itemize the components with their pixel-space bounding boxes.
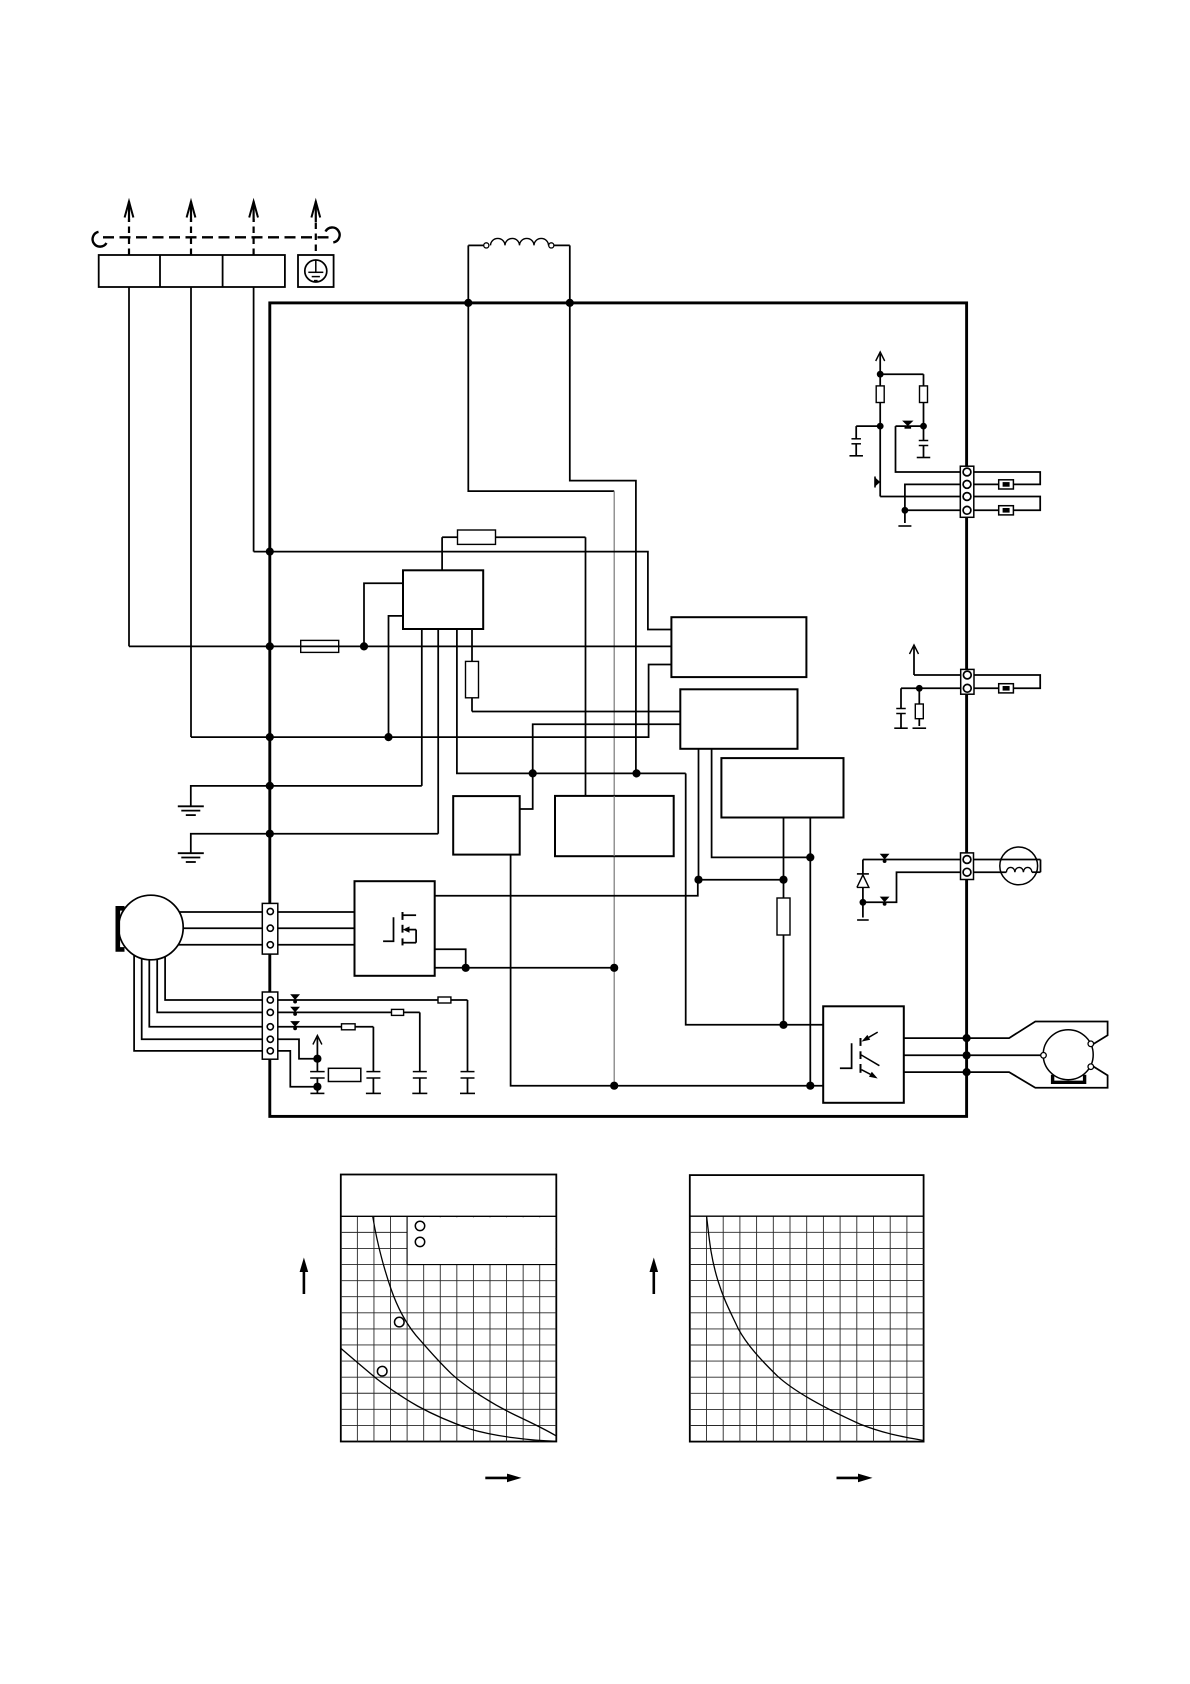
- pin mark p3: [290, 1021, 300, 1027]
- resistor R1: [876, 386, 884, 403]
- wire M1 signal 3: [149, 960, 262, 1027]
- wire U1 pin-left1: [364, 583, 403, 646]
- pin mark fan2: [880, 897, 890, 903]
- wire M1 signal 4: [142, 959, 263, 1040]
- CN-A pin2: [963, 481, 971, 489]
- node xlink1: [694, 876, 702, 884]
- junction node top-right: [566, 299, 574, 307]
- wire M1 w: [178, 944, 262, 946]
- node fan gnd: [860, 899, 867, 906]
- fuse F2: [458, 530, 496, 544]
- node p5: [313, 1083, 321, 1091]
- gnd bar R3: [913, 727, 927, 729]
- Vcc arrow sensors: [879, 354, 881, 374]
- wire row N: [270, 665, 672, 738]
- capacitor C5: [851, 438, 861, 440]
- connector CN-A: [960, 466, 974, 517]
- graph1 frame: [341, 1175, 557, 1442]
- wire R1 top: [879, 374, 881, 386]
- wire terminal3: [253, 287, 255, 552]
- thermistor loop 3: [974, 675, 1040, 688]
- node bus2: [632, 769, 640, 777]
- wire Q1 out1: [435, 880, 698, 896]
- wire U1 pin b3: [457, 629, 686, 773]
- power module Q1: [355, 881, 435, 976]
- block D: [555, 796, 674, 856]
- wire R2 bottom: [923, 403, 925, 427]
- wire CN-B pin2 left: [901, 687, 961, 689]
- wire to ground 1: [191, 786, 270, 806]
- resistor R5: [777, 898, 790, 935]
- thermistor TH3: [999, 684, 1014, 693]
- resistor R2: [920, 386, 928, 403]
- node row-L branch: [360, 642, 368, 650]
- wire CN-D to Q1 v: [278, 927, 355, 929]
- CN-C pin1: [963, 856, 971, 864]
- node gray-bus end: [610, 1082, 618, 1090]
- capacitor C2: [413, 1071, 427, 1073]
- wire M1 signal 2: [157, 959, 262, 1012]
- graph1 frame line: [341, 1215, 557, 1217]
- resistor R3: [915, 704, 923, 719]
- IC U1: [403, 570, 483, 629]
- fan motor winding: [974, 859, 1041, 861]
- wire terminal1 to L row: [128, 287, 130, 646]
- fuse F1: [301, 640, 339, 652]
- graph1 x-axis arrow: [485, 1477, 511, 1480]
- wire U1 pin b2: [437, 629, 439, 834]
- wire R3 gnd: [918, 719, 920, 726]
- wire M1 signal 5: [134, 955, 262, 1051]
- thermistor TH1: [999, 480, 1014, 489]
- node row-A on edge: [266, 548, 274, 556]
- resistor R4: [466, 661, 479, 697]
- CN-E pin5: [267, 1048, 273, 1054]
- wire TH1 to pin2: [974, 483, 999, 485]
- wire M1 v: [183, 927, 262, 929]
- graph1 marker 2: [377, 1366, 387, 1376]
- wire fan pin1 left: [863, 859, 961, 861]
- field-wiring arrow 4: [315, 219, 317, 262]
- graph2 y-axis arrow: [652, 1268, 655, 1294]
- block E: [453, 796, 520, 855]
- node row-L on edge: [266, 642, 274, 650]
- wire zener to pin1: [896, 426, 961, 472]
- node comp3: [963, 1068, 971, 1076]
- wire CN-E p1: [278, 999, 438, 1001]
- CN-E pin1: [267, 997, 273, 1003]
- CN-A pin4: [963, 506, 971, 514]
- wire fuse F2 to box D: [496, 536, 586, 538]
- CN-B pin1: [963, 671, 971, 679]
- compressor shell: [1043, 1030, 1093, 1080]
- wire Q2 out2: [904, 1054, 967, 1056]
- CN-D pin1: [267, 908, 273, 914]
- wire block B pin-b1: [698, 749, 700, 880]
- wire CN-E p4: [278, 1039, 318, 1058]
- junction node top-left: [464, 299, 472, 307]
- wire from L1 right node down: [570, 303, 636, 774]
- node driver-in: [779, 1021, 787, 1029]
- wire block E bottom to driver: [511, 855, 824, 1086]
- motor M1: [119, 895, 184, 960]
- Vcc arrow: [316, 1038, 318, 1059]
- wire to pin3: [880, 496, 960, 498]
- CN-B pin2: [963, 684, 971, 692]
- wire U1 pin-left2: [389, 616, 404, 737]
- wire bus1 to box E: [520, 773, 533, 809]
- wire box B pin2: [533, 724, 681, 773]
- wire Q1 out3: [435, 967, 615, 969]
- wire TH2 to pin4: [974, 509, 999, 511]
- pin mark fan1: [880, 854, 890, 860]
- graph2 x-axis arrow: [837, 1477, 863, 1480]
- pin mark p2: [290, 1007, 300, 1013]
- compressor wire mid: [967, 1054, 1041, 1056]
- gnd bar fan: [857, 919, 869, 921]
- graph2 frame: [690, 1175, 924, 1442]
- node pin-b2 on edge: [266, 830, 274, 838]
- wire to C5: [856, 425, 880, 427]
- node CN-B: [916, 685, 923, 692]
- wire CN-D to Q1 w: [278, 944, 355, 946]
- capacitor C3: [461, 1071, 475, 1073]
- main PCB outline: [270, 303, 967, 1117]
- wire Q1 out2: [435, 949, 466, 968]
- Q2 symbol: [840, 1043, 852, 1068]
- wire terminal2 to N row: [190, 287, 192, 737]
- terminal block TB: [99, 255, 285, 287]
- block C: [721, 758, 843, 817]
- node bus1: [529, 769, 537, 777]
- wire block C pin-b1: [783, 818, 785, 899]
- diode D2: [875, 477, 880, 486]
- wire to ground 2: [191, 834, 270, 854]
- thermistor loop 2: [974, 497, 1040, 511]
- CN-E pin2: [267, 1009, 273, 1015]
- CN-C pin2: [963, 868, 971, 876]
- motor M1 bracket: [118, 908, 125, 949]
- compressor terminal R: [1088, 1064, 1094, 1070]
- block B: [680, 689, 797, 749]
- node sens1: [877, 423, 884, 430]
- wire block B pin-b2: [712, 749, 811, 858]
- node comp1: [963, 1034, 971, 1042]
- wire Q2 out1: [904, 1037, 967, 1039]
- inductor L1: [467, 245, 469, 303]
- gnd bar sensors: [898, 525, 911, 527]
- component X1: [328, 1068, 360, 1081]
- CN-E pin3: [267, 1024, 273, 1030]
- wire CN-E p2: [278, 1011, 392, 1013]
- wire row A: [270, 552, 672, 630]
- CN-D pin3: [267, 942, 273, 948]
- wire M1 u: [179, 911, 262, 913]
- field-wiring arrow 1: [128, 219, 130, 255]
- compressor terminal S: [1088, 1041, 1094, 1047]
- resistor R7: [392, 1009, 404, 1015]
- connector CN-D: [262, 903, 278, 954]
- bus wire over block D: [613, 796, 615, 856]
- ground G1: [178, 805, 204, 807]
- graph2 curve: [707, 1216, 924, 1440]
- wire TH3 to pin2: [974, 687, 999, 689]
- wire sens top: [880, 373, 923, 375]
- wire CN-E p5: [278, 1051, 318, 1087]
- node Q1 out3 to bus: [610, 964, 618, 972]
- wire from L1 left node down: [468, 303, 614, 491]
- compressor mount bracket: [1053, 1075, 1085, 1083]
- bus wire vertical (thin): [613, 491, 615, 1086]
- wire fan pin2: [863, 872, 961, 902]
- wire Q2 out3: [904, 1071, 967, 1073]
- wire pin4: [905, 509, 960, 511]
- connector CN-C: [961, 853, 974, 880]
- wire CN-D to Q1 u: [278, 911, 355, 913]
- graph1 y-axis arrow: [303, 1268, 306, 1294]
- wire sens1 down: [879, 426, 881, 496]
- field-wiring arrow 3: [253, 219, 255, 255]
- thermistor TH2: [999, 506, 1014, 515]
- Q1 mosfet symbol: [383, 917, 393, 941]
- wire CN-E p3: [278, 1026, 342, 1028]
- fan motor FM: [1000, 847, 1038, 885]
- wire cross link: [699, 879, 784, 881]
- wire pin2 to gnd: [905, 484, 960, 523]
- wire R6 to C3: [451, 999, 468, 1001]
- compressor terminal C: [1041, 1053, 1047, 1059]
- thermistor loop 1: [974, 472, 1040, 484]
- node fan-bus: [806, 1082, 814, 1090]
- node sens gnd: [902, 507, 909, 514]
- graph1 curve 2: [341, 1348, 557, 1441]
- graph1 grid: [356, 1216, 358, 1441]
- graph1 marker 1: [395, 1317, 405, 1327]
- wire R3 top: [918, 688, 920, 704]
- node p4: [313, 1055, 321, 1063]
- wire row L: [270, 645, 672, 647]
- node Q1 out: [462, 964, 470, 972]
- connector CN-E: [262, 992, 278, 1059]
- field-wiring arrow 2: [190, 219, 192, 255]
- compressor wire bottom: [967, 1066, 1108, 1088]
- graph2 grid: [706, 1216, 708, 1441]
- node sens2: [920, 423, 927, 430]
- node pin-b1 on edge: [266, 782, 274, 790]
- Vcc arrow CN-B: [913, 647, 915, 675]
- capacitor C7: [900, 688, 902, 708]
- wire R5 down: [783, 935, 785, 1025]
- connector CN-B: [961, 669, 974, 694]
- capacitor C4: [316, 1059, 318, 1072]
- zener D1: [896, 425, 924, 427]
- capacitor C1: [366, 1071, 380, 1073]
- wire R4 to box B pin1: [471, 698, 473, 712]
- diode D3 chain: [862, 860, 864, 875]
- CN-D pin2: [267, 925, 273, 931]
- CN-E pin4: [267, 1036, 273, 1042]
- compressor wire top: [967, 1022, 1108, 1045]
- wire R1 bottom: [879, 403, 881, 427]
- wire U1 pin b4 upper: [471, 629, 473, 661]
- node fan-bus top: [806, 853, 814, 861]
- wire bus to driver upper: [686, 773, 824, 1024]
- wire M1 signal 1: [165, 957, 262, 1001]
- resistor R6: [438, 997, 451, 1003]
- wire U1 top pin: [441, 537, 443, 570]
- node xlink2: [779, 876, 787, 884]
- node sens top: [877, 371, 884, 378]
- graph1 curve 1: [373, 1216, 557, 1436]
- block A: [671, 617, 806, 677]
- node comp2: [963, 1051, 971, 1059]
- resistor R8: [342, 1024, 356, 1030]
- protective earth terminal: [298, 255, 334, 287]
- node row-N on edge: [266, 733, 274, 741]
- wire U1 pin b1: [421, 629, 423, 786]
- wire R8 to C1: [355, 1026, 373, 1028]
- graph1 legend circle 1: [415, 1221, 424, 1230]
- capacitor C6: [923, 426, 925, 440]
- ground G2: [178, 852, 204, 854]
- CN-A pin3: [963, 493, 971, 501]
- node row-N branch: [384, 733, 392, 741]
- graph1 legend box: [407, 1217, 555, 1264]
- graph2 frame line: [690, 1215, 924, 1217]
- wire CN-B pin1 left: [914, 674, 961, 676]
- wire block C pin-b2: [809, 818, 811, 1086]
- driver block Q2: [823, 1006, 904, 1103]
- cable sheath dashed loop: [103, 236, 329, 238]
- CN-A pin1: [963, 468, 971, 476]
- wire R7 to C2: [404, 1011, 420, 1013]
- graph1 legend circle 2: [415, 1237, 424, 1246]
- pin mark p1: [290, 994, 300, 1000]
